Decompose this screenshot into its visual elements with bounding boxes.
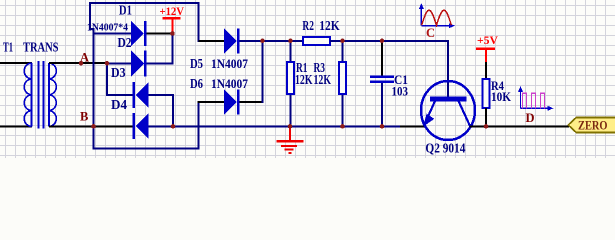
capacitor C1 top lead (black) [381, 41, 383, 76]
sine waveform icon curve [422, 10, 452, 25]
wire: D6 anode (black) [198, 101, 225, 103]
wire: bridge bottom rail [93, 148, 200, 150]
wire A continues to D2 anode (navy) [107, 63, 132, 65]
junction D5/D6 cathodes [260, 39, 265, 44]
junction node A [79, 61, 84, 66]
resistor R4 [483, 79, 490, 108]
diode D5 [224, 29, 240, 54]
power +12V bar [163, 17, 181, 20]
wire: bridge left edge upper [89, 2, 91, 29]
svg-text:D4: D4 [111, 97, 127, 112]
wire: R4 bottom to output (black) [485, 108, 487, 126]
transistor Q2 circle [421, 81, 475, 140]
svg-text:103: 103 [392, 84, 409, 99]
wire: bridge left jog [89, 28, 95, 30]
svg-text:C: C [426, 26, 435, 40]
wire: D6 cathode (black) [240, 101, 264, 103]
transformer T1 input stub bottom [0, 126, 32, 128]
svg-text:12K: 12K [319, 18, 340, 33]
svg-text:D: D [526, 111, 535, 125]
wire: D4 anode to bridge right edge [149, 126, 200, 128]
svg-text:D1: D1 [119, 3, 132, 18]
transistor Q2 emitter with arrow [423, 101, 435, 127]
wire: +12V junction down to D2 cathode [172, 34, 174, 65]
wire: bridge right upper edge [198, 2, 200, 42]
resistor R2 (series, horizontal) [303, 37, 330, 45]
capacitor C1 bottom lead [381, 83, 383, 127]
wire: D5 anode (black) [199, 40, 225, 42]
wire: bridge top rail [89, 2, 200, 4]
resistor R3 [339, 62, 346, 94]
junction R3 bottom [340, 124, 345, 129]
wire: base pin down from top wire [447, 41, 449, 97]
wire: D1 anode [93, 33, 131, 35]
svg-text:1N4007: 1N4007 [211, 56, 248, 71]
svg-text:B: B [80, 110, 88, 124]
wire: bridge right lower edge [198, 101, 200, 150]
junction node B [91, 124, 96, 129]
junction R1 top [288, 39, 293, 44]
svg-text:10K: 10K [491, 89, 512, 104]
junction C1 bottom [380, 124, 385, 129]
svg-text:+5V: +5V [477, 33, 498, 47]
svg-text:+12V: +12V [160, 4, 185, 18]
transformer T1 secondary winding [49, 63, 56, 127]
junction D3/D4 anodes [171, 124, 176, 129]
pulse waveform icon pulses [523, 93, 545, 108]
svg-text:ZERO: ZERO [578, 118, 608, 133]
svg-text:D6: D6 [190, 76, 203, 91]
wire: D6 cathode up to top wire [262, 41, 264, 104]
diode D6 [224, 90, 240, 115]
junction R3 top [340, 39, 345, 44]
wire: +5V to R4 (black) [485, 62, 487, 79]
svg-text:D5: D5 [190, 56, 203, 71]
wire: D3 cathode [106, 94, 133, 96]
svg-text:T1: T1 [3, 39, 13, 54]
resistor R1 [287, 62, 294, 94]
wire: bridge left edge [93, 28, 95, 150]
svg-text:12K: 12K [295, 72, 313, 87]
ground bus wire [172, 126, 400, 128]
junction R1 bottom / ground [288, 124, 293, 129]
junction R4 bottom / node D [484, 124, 489, 129]
svg-text:12K: 12K [314, 72, 332, 87]
wire B: secondary bottom to D4 (black) [49, 126, 133, 128]
wire: D1 cathode to +12V junction (black) [147, 33, 174, 35]
transformer T1 primary winding [24, 63, 31, 127]
wire: D2 cathode [147, 63, 173, 65]
transformer core [39, 61, 44, 129]
wire: collector output to ZERO (black) [470, 126, 570, 128]
power +5V bar and stub [476, 48, 495, 51]
wire: D3 anode down to bus [172, 94, 174, 127]
svg-text:Q2 9014: Q2 9014 [425, 140, 465, 155]
junction node A to D3 [105, 61, 110, 66]
ground symbol [277, 126, 304, 154]
power +12V stub (red) [172, 19, 174, 34]
junction C1 top [380, 39, 385, 44]
wire: A junction down [106, 63, 108, 96]
transistor Q2 collector [459, 101, 471, 126]
diode D2 [131, 51, 147, 77]
wire A: secondary top to junction (black) [49, 62, 107, 64]
svg-text:D2: D2 [118, 35, 132, 50]
diode D4 (points left) [133, 113, 149, 139]
capacitor C1 plates [370, 76, 394, 79]
transformer T1 input stub top [0, 62, 32, 64]
resistor R1 leads [290, 41, 292, 62]
wire: D3 anode [149, 94, 175, 96]
svg-text:TRANS: TRANS [23, 39, 59, 54]
ground bus wire black end [400, 126, 425, 128]
diode D3 (points left) [133, 82, 149, 108]
pulse waveform icon axes [521, 89, 551, 108]
diode D1 [131, 21, 147, 46]
svg-text:D3: D3 [111, 65, 126, 80]
wire: D5 cathode to R2 [240, 40, 304, 42]
resistor R3 leads [342, 41, 344, 62]
port ZERO tag [568, 118, 615, 133]
svg-text:1N4007: 1N4007 [211, 76, 248, 91]
junction +12V at D1 cathode [170, 31, 175, 36]
wire: R2 right to base corner [330, 40, 449, 42]
svg-text:1N4007*4: 1N4007*4 [87, 22, 129, 33]
sine waveform icon axes [421, 6, 452, 26]
svg-text:R2: R2 [302, 18, 314, 33]
transistor Q2 base bar [430, 97, 467, 102]
